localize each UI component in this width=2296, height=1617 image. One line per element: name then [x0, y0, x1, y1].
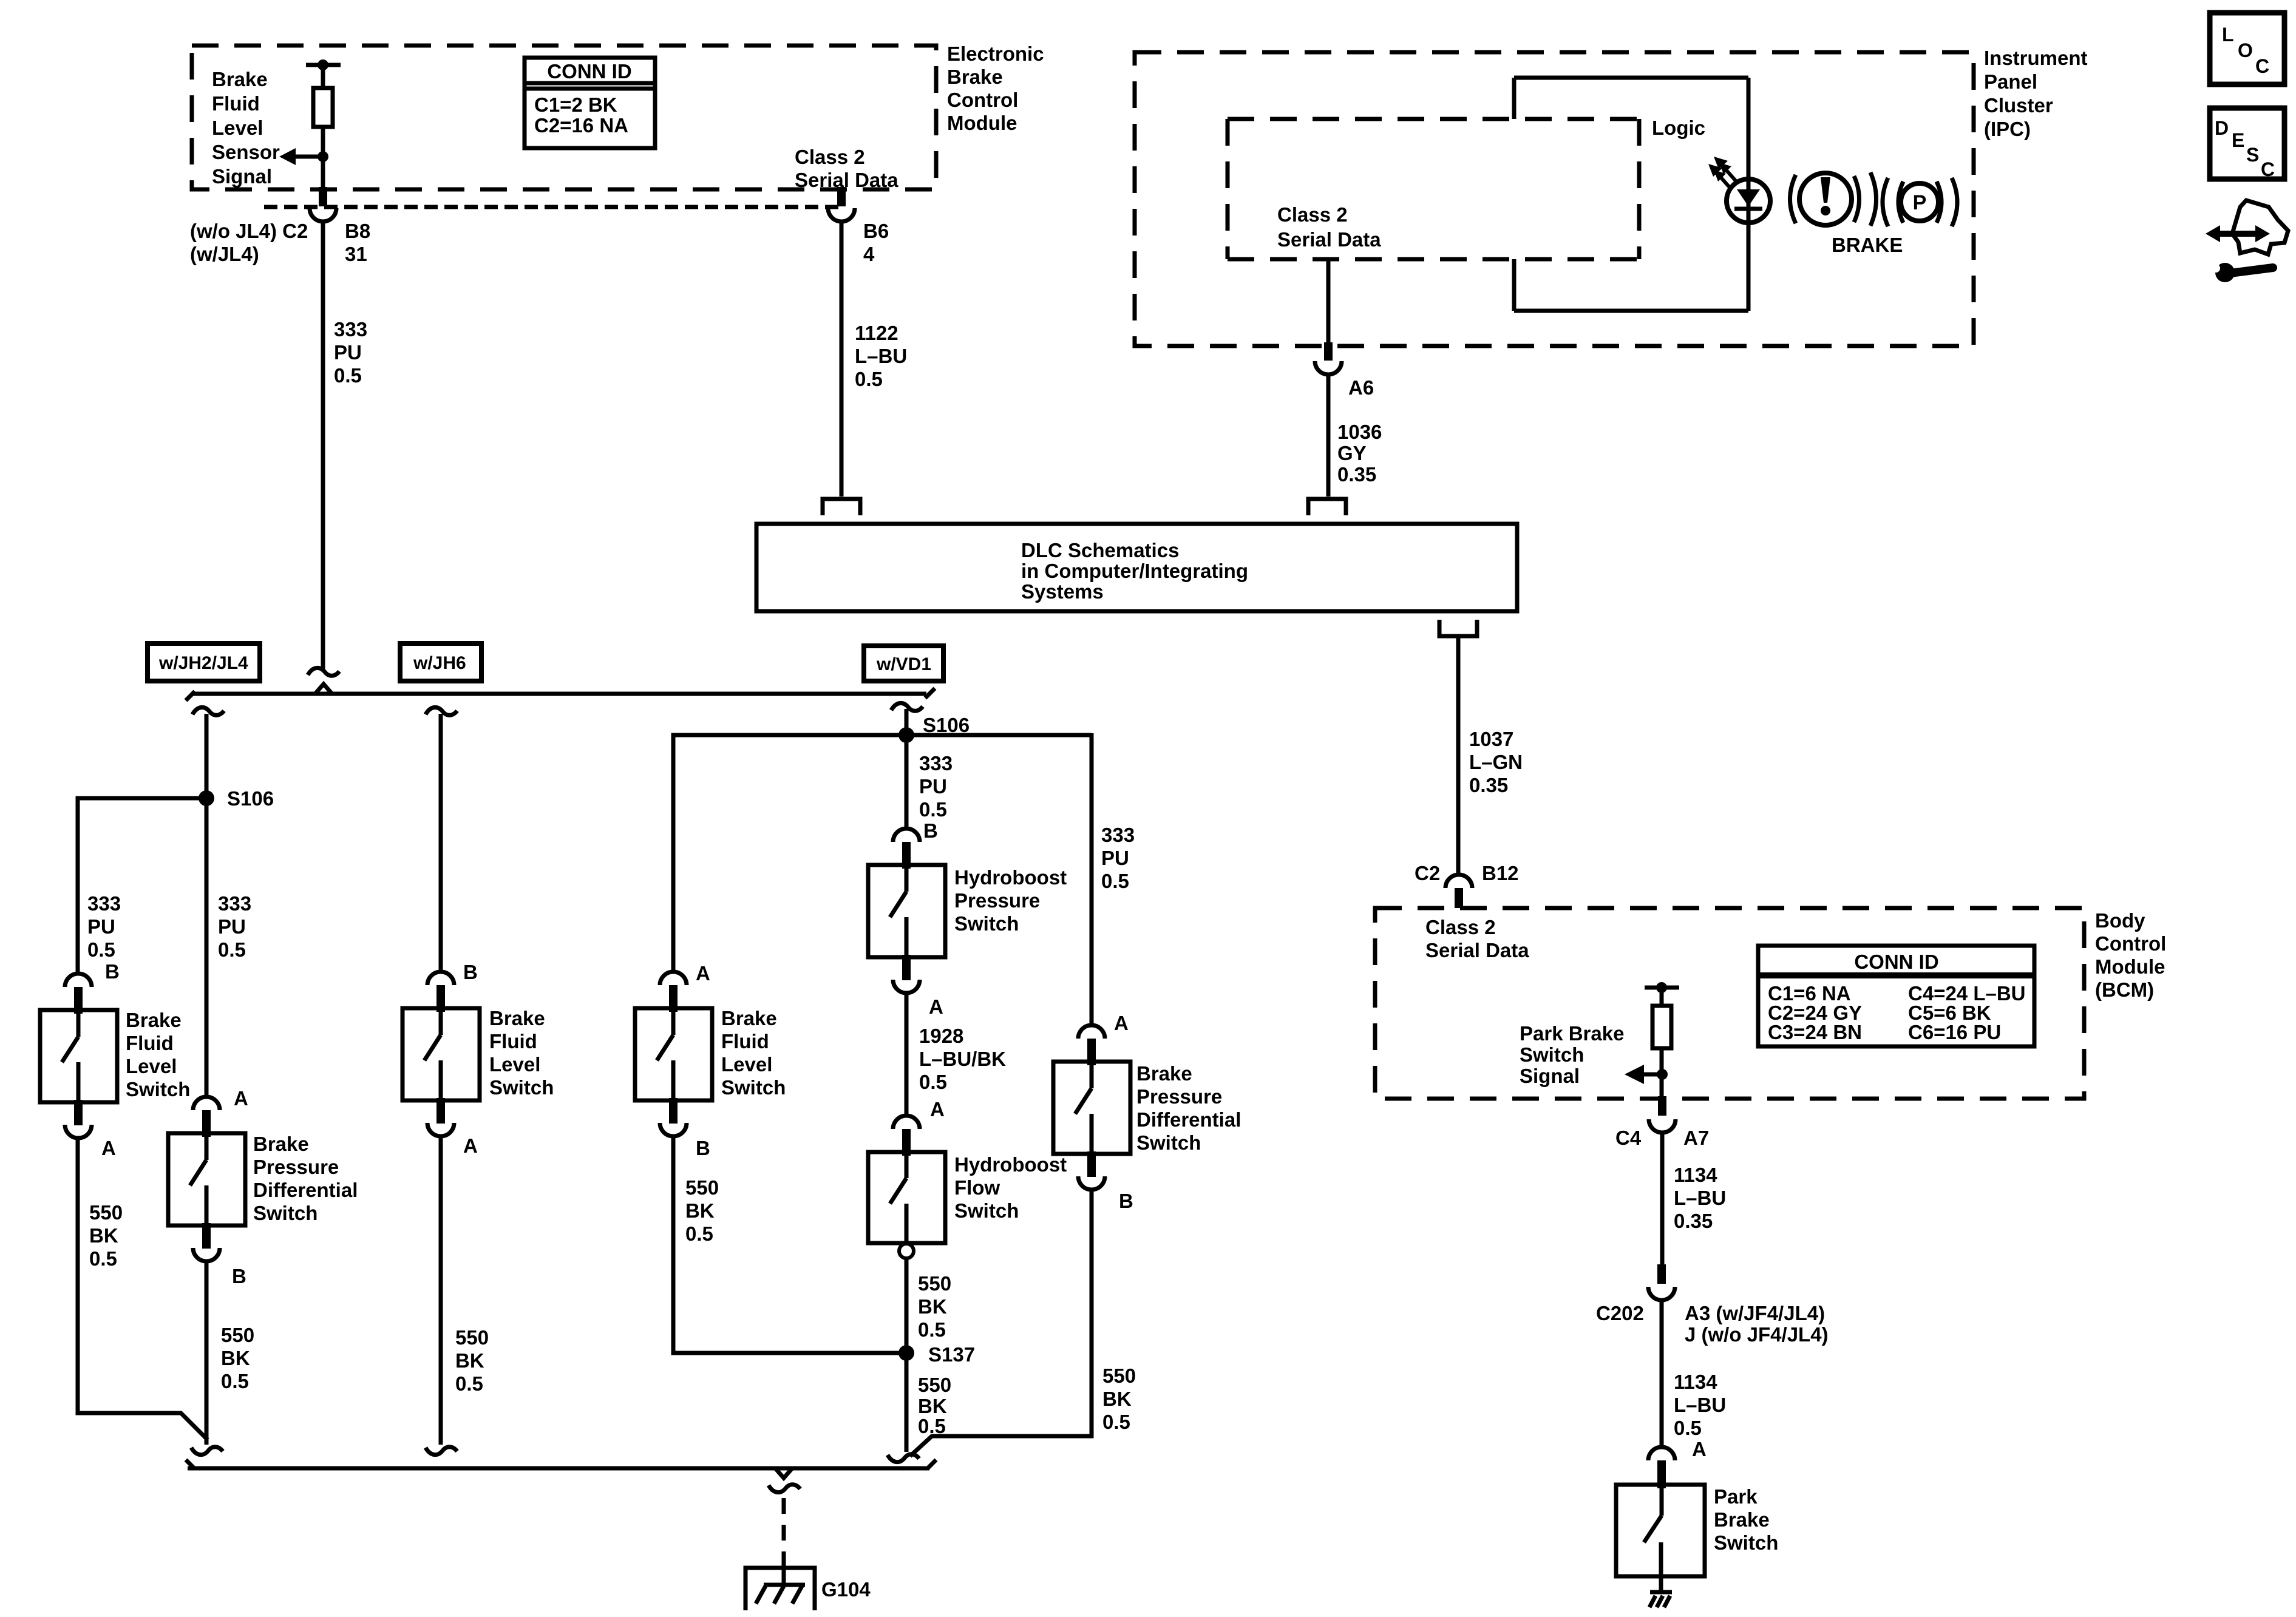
wire label 333 PU 0.5 (left branch) [87, 892, 121, 961]
wire label 333 PU 0.5 [334, 318, 367, 387]
wire label 1134 L-BU 0.5 [1674, 1371, 1726, 1439]
svg-text:Sensor: Sensor [212, 141, 280, 163]
switch symbol [424, 1012, 441, 1100]
wire label 333 PU 0.5 (VD1 right) [1101, 824, 1135, 892]
terminal B8 arc [310, 208, 336, 222]
wire-end curl w/JH6 [426, 1447, 457, 1455]
pin C4 stub [1658, 1096, 1666, 1116]
svg-text:Systems: Systems [1021, 580, 1104, 603]
svg-text:L–BU: L–BU [855, 345, 907, 367]
terminal A arc (flow switch) [893, 1116, 920, 1129]
inner dashed box: Class 2 Serial Data region [1228, 119, 1639, 259]
plug bracket for A6 wire at DLC [1308, 499, 1346, 515]
option split bus [191, 692, 926, 696]
dashed ground wire [782, 1498, 786, 1570]
svg-text:S106: S106 [227, 787, 274, 810]
svg-text:31: 31 [345, 243, 367, 265]
svg-text:Pressure: Pressure [1136, 1085, 1222, 1108]
svg-text:BK: BK [685, 1199, 715, 1222]
in-line connector C202: terminal arc [1648, 1287, 1675, 1300]
svg-text:A: A [1114, 1012, 1129, 1034]
sensor top bar with node [306, 63, 341, 67]
terminal B arc [1078, 1176, 1105, 1190]
wire label 550 BK 0.5 below S137 [918, 1374, 951, 1437]
logic box (solid, notched by dashed box) [1514, 78, 1748, 311]
pin stub [669, 985, 678, 1012]
bus right end tick [927, 1460, 936, 1469]
pin B12 stub [1455, 888, 1463, 908]
labels C202 / A3 / J [1596, 1302, 1829, 1346]
svg-text:550: 550 [89, 1201, 123, 1224]
pin stub [902, 955, 911, 980]
label: DLC Schematics in Computer/Integrating Systems [1021, 539, 1248, 603]
svg-text:C: C [2255, 55, 2269, 77]
option box w/JH2/JL4 [148, 643, 260, 681]
pin stub [436, 985, 445, 1012]
wire to sub branches [673, 735, 1092, 971]
label: Brake Pressure Differential Switch (w/VD1) [1136, 1062, 1241, 1154]
terminal B arc [193, 1248, 220, 1261]
resistor: brake fluid level sensor element [313, 88, 333, 127]
svg-text:Signal: Signal [212, 165, 272, 188]
switch symbol [657, 1012, 673, 1100]
svg-text:B: B [1119, 1190, 1133, 1212]
svg-text:PU: PU [87, 915, 115, 938]
svg-text:550: 550 [1102, 1364, 1136, 1387]
svg-text:Brake: Brake [721, 1007, 777, 1029]
svg-text:1122: 1122 [855, 322, 898, 344]
label: Hydroboost Pressure Switch [954, 866, 1067, 935]
svg-text:A3 (w/JF4/JL4): A3 (w/JF4/JL4) [1685, 1302, 1825, 1324]
svg-text:Cluster: Cluster [1984, 94, 2053, 117]
svg-text:Module: Module [2095, 955, 2165, 978]
wire label 1122 L-BU 0.5 [855, 322, 907, 390]
plug bracket for B6 wire at DLC [823, 499, 860, 515]
svg-text:Switch: Switch [1136, 1131, 1201, 1154]
pin stub [202, 1223, 211, 1249]
switch symbol [890, 869, 906, 957]
terminal C4/A7 arc [1649, 1119, 1676, 1133]
terminal B arc [65, 974, 92, 987]
svg-text:0.35: 0.35 [1674, 1210, 1713, 1232]
branch curl w/JH2/JL4 [192, 707, 224, 715]
svg-text:550: 550 [918, 1272, 951, 1295]
labels C4 / A7 [1615, 1127, 1709, 1149]
svg-text:GY: GY [1337, 442, 1367, 464]
svg-text:A6: A6 [1348, 376, 1374, 399]
pin stub [74, 1100, 83, 1125]
CONN ID table (BCM) [1758, 946, 2034, 1046]
svg-text:C202: C202 [1596, 1302, 1644, 1324]
svg-text:Level: Level [126, 1055, 177, 1077]
terminal A arc at park brake switch [1648, 1447, 1675, 1460]
bus caret under feed wire [315, 684, 332, 694]
open terminal circle at flow switch bottom [899, 1244, 914, 1258]
svg-text:B12: B12 [1482, 862, 1519, 884]
in-line connector C202: pin stub [1657, 1264, 1666, 1284]
svg-text:Switch: Switch [1714, 1531, 1778, 1554]
node on sensor signal wire [318, 151, 328, 162]
switch box: Brake Pressure Differential Switch (w/VD1) [1053, 1062, 1130, 1154]
svg-text:Brake: Brake [1136, 1062, 1192, 1085]
chassis ground under park brake switch [1649, 1576, 1672, 1607]
svg-text:333: 333 [919, 752, 953, 775]
svg-text:0.5: 0.5 [455, 1372, 483, 1395]
pin stub [902, 1129, 911, 1156]
wire label 1036 GY 0.35 [1337, 421, 1382, 486]
svg-text:0.5: 0.5 [685, 1222, 713, 1245]
svg-text:Control: Control [947, 89, 1018, 111]
switch box: Brake Pressure Differential Switch (w/JH2/JL4) [168, 1133, 245, 1225]
svg-text:Pressure: Pressure [253, 1156, 339, 1178]
label: Hydroboost Flow Switch [954, 1153, 1067, 1222]
wire-end curl VD1 main [888, 1454, 919, 1462]
wire 1928 L-BU/BK [905, 993, 909, 1114]
svg-text:G104: G104 [821, 1578, 871, 1601]
pin stub [669, 1098, 678, 1124]
svg-text:Serial Data: Serial Data [1425, 939, 1529, 961]
svg-text:CONN ID: CONN ID [1854, 951, 1938, 973]
svg-text:1037: 1037 [1469, 728, 1513, 750]
hotlink icon: double arrow [2206, 225, 2270, 242]
svg-text:Differential: Differential [1136, 1108, 1241, 1131]
switch symbol [190, 1137, 206, 1225]
svg-text:0.5: 0.5 [334, 364, 362, 387]
label: Body Control Module (BCM) [2095, 909, 2166, 1001]
terminal A6 arc [1315, 361, 1342, 375]
module box: Body Control Module (dashed) [1375, 908, 2084, 1099]
svg-text:Class 2: Class 2 [795, 146, 865, 168]
LED emission arrows [1708, 157, 1737, 189]
svg-text:Fluid: Fluid [489, 1030, 537, 1053]
svg-text:Switch: Switch [126, 1078, 190, 1100]
wire 1037 L-GN [1456, 636, 1461, 875]
plug bracket below DLC for 1037 wire [1439, 620, 1477, 636]
pin stub [202, 1110, 211, 1137]
svg-text:Differential: Differential [253, 1179, 358, 1201]
wire branch w/JH6 [439, 714, 443, 971]
svg-text:Level: Level [721, 1053, 772, 1076]
park brake sensor top bar with node [1645, 986, 1679, 990]
svg-text:Level: Level [212, 117, 263, 139]
terminal A arc [660, 972, 687, 985]
wire 550 BK 0.5 (w/JH6) [439, 1136, 443, 1445]
wire 550 BK below flow switch [905, 1258, 909, 1452]
svg-text:Serial Data: Serial Data [1277, 228, 1381, 251]
svg-text:L–GN: L–GN [1469, 751, 1523, 773]
svg-text:BK: BK [455, 1349, 484, 1372]
hotlink icon: wrench [2212, 263, 2273, 282]
wire label 1037 L-GN 0.35 [1469, 728, 1523, 796]
svg-text:B: B [105, 960, 120, 983]
svg-text:Brake: Brake [126, 1009, 182, 1031]
svg-text:Brake: Brake [253, 1133, 309, 1155]
svg-text:Hydroboost: Hydroboost [954, 1153, 1067, 1176]
brake warning indicator ((!)) [1790, 172, 1877, 226]
svg-text:0.5: 0.5 [918, 1415, 946, 1437]
svg-text:0.5: 0.5 [89, 1247, 117, 1270]
bus caret to ground [775, 1468, 792, 1478]
LOC icon box [2210, 13, 2284, 84]
terminal B arc [427, 972, 454, 985]
CONN ID table (ECBM) [525, 58, 655, 148]
wire branch w/JH2/JL4 upper [205, 714, 209, 1096]
signal arrow (points left) [1643, 1073, 1662, 1077]
pin B8 stub [319, 187, 327, 206]
svg-text:D: D [2215, 117, 2229, 139]
svg-text:1928: 1928 [919, 1025, 963, 1047]
switch box: Park Brake Switch [1616, 1485, 1705, 1576]
svg-text:Serial Data: Serial Data [795, 169, 898, 191]
svg-text:C3=24 BN: C3=24 BN [1768, 1021, 1862, 1043]
option box w/JH6 [400, 643, 481, 681]
svg-text:C: C [2261, 158, 2275, 180]
svg-text:Body: Body [2095, 909, 2145, 932]
svg-text:Level: Level [489, 1053, 540, 1076]
labels B8 / 31 [345, 220, 370, 265]
option box w/VD1 [864, 646, 943, 681]
svg-text:(IPC): (IPC) [1984, 118, 2031, 140]
svg-text:Switch: Switch [954, 1199, 1019, 1222]
svg-text:C6=16 PU: C6=16 PU [1908, 1021, 2001, 1043]
svg-text:Pressure: Pressure [954, 889, 1040, 912]
node on park brake signal wire [1657, 1069, 1668, 1080]
DESC icon box [2210, 108, 2284, 180]
svg-text:Panel: Panel [1984, 70, 2037, 93]
wire 550 BK 0.5 (VD1 left) [673, 1136, 906, 1353]
svg-text:Park Brake: Park Brake [1520, 1022, 1624, 1045]
svg-text:1134: 1134 [1674, 1164, 1717, 1186]
wire [1660, 1048, 1664, 1099]
svg-text:in Computer/Integrating: in Computer/Integrating [1021, 560, 1248, 582]
wire from class2 box to A6 [1326, 259, 1331, 344]
label: Class 2 Serial Data (BCM) [1425, 916, 1529, 961]
svg-text:0.5: 0.5 [918, 1318, 946, 1341]
splice S106 [199, 790, 214, 806]
svg-text:DLC Schematics: DLC Schematics [1021, 539, 1179, 561]
switch box: Hydroboost Flow Switch [868, 1152, 945, 1243]
branch curl w/JH6 [426, 707, 457, 715]
terminal B arc [660, 1123, 687, 1136]
label: Electronic Brake Control Module [947, 42, 1044, 134]
svg-text:E: E [2232, 129, 2244, 151]
bus left end tick [186, 1460, 195, 1469]
svg-text:L–BU: L–BU [1674, 1394, 1726, 1416]
labels (w/o JL4) C2 / (w/JL4) [190, 220, 308, 265]
pin stub [436, 1098, 445, 1124]
wire label 333 PU 0.5 (center branch) [218, 892, 251, 961]
svg-text:Switch: Switch [1520, 1043, 1584, 1066]
terminal C2/B12 arc [1445, 875, 1472, 888]
label: Brake Fluid Level Switch (w/VD1) [721, 1007, 786, 1099]
svg-text:C4: C4 [1615, 1127, 1642, 1149]
svg-text:Brake: Brake [489, 1007, 545, 1029]
svg-text:BK: BK [1102, 1388, 1132, 1410]
svg-text:A: A [930, 1098, 945, 1120]
svg-text:Signal: Signal [1520, 1065, 1580, 1087]
svg-text:C2: C2 [1415, 862, 1440, 884]
svg-text:Module: Module [947, 112, 1017, 134]
switch box: Brake Fluid Level Switch (w/JH6) [402, 1008, 480, 1100]
svg-text:B: B [696, 1137, 710, 1159]
svg-text:PU: PU [919, 775, 947, 798]
svg-text:P: P [1913, 191, 1927, 214]
svg-text:Switch: Switch [489, 1076, 554, 1099]
svg-text:0.5: 0.5 [1102, 1411, 1130, 1433]
pin stub [1087, 1039, 1096, 1065]
wire 550 BK 0.5 (left branch) [78, 1138, 208, 1440]
svg-text:333: 333 [334, 318, 367, 341]
wire 1036 GY [1326, 376, 1331, 497]
svg-text:B8: B8 [345, 220, 370, 242]
wire 1122 L-BU from B6 [840, 223, 844, 497]
svg-text:Hydroboost: Hydroboost [954, 866, 1067, 889]
svg-text:A: A [101, 1137, 116, 1159]
switch symbol [62, 1014, 78, 1102]
svg-text:0.35: 0.35 [1337, 463, 1376, 486]
svg-text:(w/o JL4) C2: (w/o JL4) C2 [190, 220, 308, 242]
svg-text:0.5: 0.5 [218, 938, 246, 961]
svg-text:BK: BK [221, 1347, 250, 1369]
svg-text:Instrument: Instrument [1984, 47, 2088, 69]
svg-text:CONN ID: CONN ID [547, 60, 631, 83]
wire label 333 PU 0.5 (VD1 main) [919, 752, 953, 821]
terminal A arc [427, 1123, 454, 1136]
svg-text:BK: BK [89, 1224, 118, 1247]
svg-text:333: 333 [1101, 824, 1135, 846]
svg-text:Park: Park [1714, 1485, 1758, 1508]
svg-text:C2=16 NA: C2=16 NA [534, 114, 628, 137]
svg-text:w/VD1: w/VD1 [876, 654, 931, 674]
svg-text:B: B [463, 961, 478, 983]
svg-text:w/JH2/JL4: w/JH2/JL4 [158, 653, 248, 673]
wire to left brake fluid level switch [78, 798, 206, 972]
bus left end tick [186, 691, 195, 700]
wire label 1134 L-BU 0.35 [1674, 1164, 1726, 1232]
splice S106 (w/VD1) [905, 709, 909, 827]
svg-text:550: 550 [685, 1176, 719, 1199]
svg-text:L: L [2222, 24, 2234, 46]
label: Class 2 Serial Data (ECBM) [795, 146, 898, 191]
switch symbol [1075, 1065, 1092, 1154]
terminal B arc [893, 829, 920, 842]
svg-text:Control: Control [2095, 932, 2166, 955]
terminal B6 arc [828, 208, 855, 222]
svg-text:BRAKE: BRAKE [1832, 234, 1903, 256]
svg-text:Switch: Switch [721, 1076, 786, 1099]
ground bus [188, 1466, 929, 1471]
svg-text:Fluid: Fluid [212, 92, 260, 115]
branch curl w/VD1 [891, 703, 923, 711]
svg-text:0.5: 0.5 [919, 1071, 947, 1093]
svg-text:Fluid: Fluid [126, 1032, 174, 1054]
svg-text:Electronic: Electronic [947, 42, 1044, 65]
switch box: Brake Fluid Level Switch (w/VD1) [635, 1008, 712, 1100]
svg-text:0.5: 0.5 [1674, 1417, 1702, 1439]
svg-text:S137: S137 [928, 1343, 975, 1366]
ground G104 symbol [746, 1568, 815, 1610]
svg-text:0.5: 0.5 [221, 1370, 249, 1392]
svg-text:Brake: Brake [212, 68, 268, 90]
switch box: Hydroboost Pressure Switch [868, 865, 945, 957]
wire [321, 65, 325, 88]
labels C2 / B12 [1415, 862, 1519, 884]
svg-text:Switch: Switch [253, 1202, 318, 1224]
svg-text:C1=2 BK: C1=2 BK [534, 93, 617, 116]
svg-text:1134: 1134 [1674, 1371, 1717, 1393]
svg-text:BK: BK [918, 1395, 947, 1417]
svg-text:A: A [696, 962, 710, 985]
svg-text:(BCM): (BCM) [2095, 978, 2154, 1001]
svg-text:333: 333 [87, 892, 121, 915]
svg-text:A: A [463, 1134, 478, 1157]
terminal A arc [65, 1125, 92, 1138]
svg-text:Class 2: Class 2 [1277, 203, 1348, 226]
wire-end curl center branch [191, 1447, 223, 1455]
switch box: Brake Fluid Level Switch (w/JH2/JL4) [40, 1010, 117, 1102]
label: Instrument Panel Cluster (IPC) [1984, 47, 2088, 140]
label: Brake Fluid Level Switch [126, 1009, 190, 1100]
labels B6 / 4 [863, 220, 889, 265]
park brake indicator ((P)) [1883, 178, 1957, 226]
bus right end tick [925, 688, 935, 698]
svg-text:550: 550 [455, 1326, 489, 1349]
svg-text:(w/JL4): (w/JL4) [190, 243, 259, 265]
wire 333 PU from B8 [321, 223, 325, 670]
label: Park Brake Switch Signal [1520, 1022, 1624, 1087]
terminal A arc [193, 1097, 220, 1110]
wire 550 BK 0.5 (center branch) [205, 1261, 209, 1445]
svg-text:0.5: 0.5 [87, 938, 115, 961]
svg-text:A: A [929, 995, 943, 1018]
label: Class 2 Serial Data (IPC) [1277, 203, 1381, 251]
svg-text:Switch: Switch [954, 912, 1019, 935]
svg-text:Brake: Brake [947, 66, 1003, 88]
svg-text:B: B [923, 819, 938, 842]
svg-text:550: 550 [221, 1324, 254, 1346]
svg-text:PU: PU [334, 341, 362, 364]
svg-text:550: 550 [918, 1374, 951, 1396]
svg-text:S106: S106 [923, 714, 970, 736]
svg-text:BK: BK [918, 1295, 947, 1318]
pin A6 stub [1324, 342, 1333, 361]
svg-text:O: O [2238, 39, 2253, 61]
terminal A arc [893, 980, 920, 993]
label: Brake Pressure Differential Switch [253, 1133, 358, 1224]
svg-text:4: 4 [863, 243, 875, 265]
svg-text:1036: 1036 [1337, 421, 1382, 443]
pin stub [902, 842, 911, 869]
svg-text:0.5: 0.5 [855, 368, 883, 390]
DLC Schematics box [756, 524, 1517, 611]
svg-text:Brake: Brake [1714, 1508, 1770, 1531]
connector face line C2 (dotted) [264, 205, 844, 209]
LED indicator lamp [1727, 179, 1770, 223]
wire [1660, 988, 1664, 1006]
svg-text:L–BU/BK: L–BU/BK [919, 1048, 1006, 1070]
label: Brake Fluid Level Switch (w/JH6) [489, 1007, 554, 1099]
pin stub [74, 987, 83, 1014]
wire 550 BK 0.5 (VD1 right) [910, 1190, 1092, 1456]
svg-text:L–BU: L–BU [1674, 1187, 1726, 1209]
wire 1134 L-BU 0.35 [1660, 1133, 1665, 1267]
pin B6 stub [837, 187, 846, 206]
svg-text:PU: PU [218, 915, 246, 938]
svg-text:w/JH6: w/JH6 [413, 653, 466, 673]
svg-text:J (w/o JF4/JL4): J (w/o JF4/JL4) [1685, 1323, 1829, 1346]
svg-text:Fluid: Fluid [721, 1030, 769, 1053]
label: Park Brake Switch [1714, 1485, 1778, 1554]
